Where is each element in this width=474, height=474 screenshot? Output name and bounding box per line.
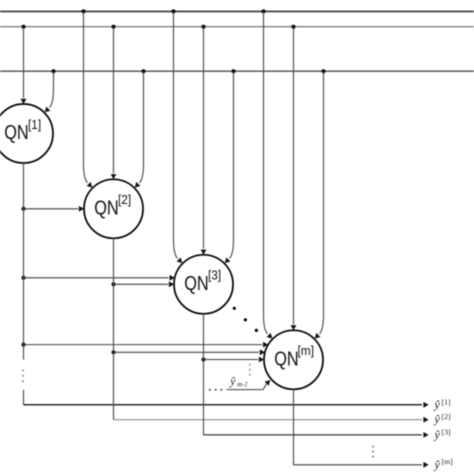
wire drop from line C into QN1 top-right (junction dot) bbox=[45, 69, 56, 112]
wire drop from line C into QN2 top-right (junction dot) bbox=[135, 69, 146, 187]
wire drop from line C into QN3 top-right (junction dot) bbox=[225, 69, 236, 263]
wire QN1 output line to y-hat[1] bbox=[24, 402, 429, 408]
label y-hat[3] output bbox=[434, 428, 451, 442]
svg-text:[3]: [3] bbox=[442, 428, 451, 437]
vertical ellipsis between output lines 3 and m bbox=[372, 446, 374, 458]
wire skip connection QN3 output to QN4 left input (junction dot) bbox=[202, 357, 265, 363]
wire input bus line B bbox=[0, 26, 474, 28]
svg-text:[m]: [m] bbox=[442, 457, 454, 466]
svg-text:ŷ: ŷ bbox=[434, 398, 441, 412]
wire QN1 output vertical (with break) bbox=[23, 163, 25, 405]
label y-hat[m] output bbox=[434, 457, 454, 471]
wire y_(m-1) input into QNm lower-left bbox=[227, 380, 271, 390]
label y_(m-1) bbox=[229, 376, 248, 389]
svg-text:QN: QN bbox=[274, 347, 299, 370]
wire skip connection QN2 output to QN4 left input (junction dot) bbox=[112, 349, 266, 355]
svg-text:ŷ: ŷ bbox=[434, 428, 441, 442]
wire drop from line C into QN4 top-right (junction dot) bbox=[315, 69, 326, 338]
wire input bus line A (top) bbox=[0, 10, 474, 12]
svg-text:ŷ: ŷ bbox=[434, 457, 441, 471]
svg-text:[2]: [2] bbox=[118, 192, 131, 207]
ellipsis dots on QN1 output wire bbox=[22, 369, 24, 382]
ellipsis dots before y_(m-1) wire bbox=[209, 389, 223, 391]
node QN1 (quantum neuron [1]) bbox=[0, 104, 53, 163]
wire QN4 output line to y-hat[m] bbox=[294, 389, 429, 467]
wire skip connection QN1 output to QN4 left input (junction dot) bbox=[22, 342, 269, 348]
label y-hat[1] output bbox=[434, 397, 451, 411]
node QN4 (quantum neuron [m]) bbox=[264, 330, 323, 389]
svg-text:ŷ: ŷ bbox=[434, 412, 441, 426]
wire drop from line B into QN3 top (junction dot) bbox=[201, 25, 207, 255]
wire skip connection QN2 output to QN3 left input (junction dot) bbox=[112, 281, 175, 287]
svg-text:[3]: [3] bbox=[208, 268, 221, 283]
wire drop from line B into QN2 top (junction dot) bbox=[111, 25, 117, 180]
svg-text:QN: QN bbox=[94, 196, 119, 219]
diagonal ellipsis between QN3 and QNm bbox=[233, 307, 258, 332]
svg-text:ŷ: ŷ bbox=[229, 376, 236, 388]
node QN3 (quantum neuron [3]) bbox=[174, 255, 233, 314]
wire QN2 output line to y-hat[2] bbox=[114, 238, 429, 422]
svg-text:m-1: m-1 bbox=[237, 381, 248, 388]
svg-text:QN: QN bbox=[184, 272, 209, 295]
svg-text:[1]: [1] bbox=[442, 397, 451, 406]
vertical ellipsis left of QNm bbox=[249, 364, 251, 376]
svg-text:QN: QN bbox=[4, 121, 29, 144]
wire drop from line A into QN2 top-left (junction dot) bbox=[82, 9, 93, 187]
wire drop from line B into QN1 top (junction dot) bbox=[21, 25, 27, 104]
label y-hat[2] output bbox=[434, 412, 451, 426]
node QN2 (quantum neuron [2]) bbox=[84, 179, 143, 238]
wire QN3 output line to y-hat[3] bbox=[204, 314, 429, 438]
svg-text:[1]: [1] bbox=[28, 117, 41, 132]
wire drop from line A into QN3 top-left (junction dot) bbox=[172, 9, 183, 263]
wire drop from line B into QN4 top (junction dot) bbox=[291, 25, 297, 331]
svg-text:[m]: [m] bbox=[298, 343, 315, 358]
wire skip connection QN1 output to QN3 left input (junction dot) bbox=[22, 275, 175, 281]
wire drop from line A into QN4 top-left (junction dot) bbox=[262, 9, 273, 338]
wire input bus line C bbox=[0, 70, 474, 72]
svg-text:[2]: [2] bbox=[442, 412, 451, 421]
wire skip connection QN1 output to QN2 left input (junction dot) bbox=[22, 206, 85, 212]
